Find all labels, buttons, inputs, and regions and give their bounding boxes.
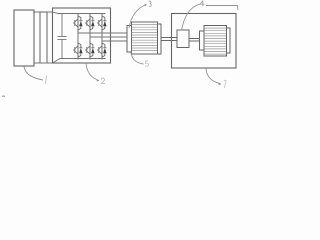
dyno body: [204, 26, 227, 57]
dyno right cap: [227, 28, 231, 53]
leader 2: [86, 63, 99, 81]
IGBT cell Q6 bottom leg3: [97, 41, 107, 60]
inverter box 2: [53, 8, 111, 63]
label 1: [45, 76, 48, 84]
motor ribs: [132, 25, 158, 51]
leader 7 test box: [206, 68, 220, 84]
leader 3: [129, 5, 147, 29]
IGBT cell Q2 bottom leg1: [73, 41, 83, 60]
IGBT cell Q3 top leg2: [85, 14, 95, 33]
wire top narrow box to inverter: [47, 11, 53, 13]
wire top battery to narrow box: [34, 11, 40, 13]
phase wire V: [90, 36, 127, 38]
leader 4: [182, 4, 201, 31]
phase wire U: [78, 32, 127, 34]
speck: [2, 96, 5, 98]
motor right cap: [158, 24, 162, 54]
label 7: [224, 80, 227, 88]
top right rule: [206, 6, 238, 11]
dyno ribs: [204, 28, 227, 54]
motor body: [132, 22, 158, 54]
bottom DC rail: [53, 59, 106, 64]
dyno left bracket: [200, 31, 205, 50]
narrow box: [40, 12, 47, 63]
test rig box: [172, 14, 237, 69]
shaft motor to box: [161, 38, 177, 41]
motor left bracket: [127, 26, 132, 53]
leader 5 motor: [131, 53, 144, 65]
capacitor C: [58, 14, 67, 59]
wire bottom battery to inverter: [34, 62, 53, 64]
label 4: [200, 1, 204, 7]
IGBT cell Q4 bottom leg2: [85, 41, 95, 60]
leader 1: [24, 67, 43, 81]
coupling / torque sensor: [177, 30, 189, 48]
phase wire W: [102, 40, 127, 42]
label 5: [145, 61, 148, 66]
IGBT cell Q5 top leg3: [97, 14, 107, 33]
label 2: [101, 78, 105, 84]
top DC rail: [53, 12, 106, 14]
label 3: [149, 1, 152, 6]
battery box 1: [14, 10, 34, 66]
IGBT cell Q1 top leg1: [73, 14, 83, 33]
shaft coupling to dyno: [189, 39, 200, 42]
